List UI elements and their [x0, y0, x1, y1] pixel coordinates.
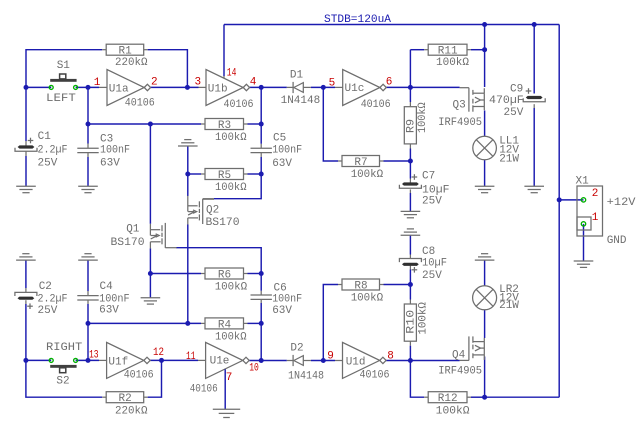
- svg-text:100kΩ: 100kΩ: [215, 281, 248, 293]
- svg-text:5: 5: [329, 77, 336, 89]
- svg-text:100kΩ: 100kΩ: [215, 132, 247, 144]
- node S2 left: [23, 358, 28, 363]
- svg-text:40106: 40106: [361, 99, 391, 111]
- ground U1e pin7: [213, 408, 240, 410]
- svg-text:R3: R3: [218, 120, 231, 132]
- wire LL1 to ground: [484, 160, 486, 186]
- svg-text:220kΩ: 220kΩ: [115, 405, 148, 417]
- wire U1f out to U1e in: [150, 359, 198, 361]
- wire U1d out to Q4 gate node 8: [386, 360, 460, 362]
- wire X1 pin2 feed: [559, 199, 583, 201]
- wire S2 to U1f input: [76, 359, 99, 361]
- svg-text:Q3: Q3: [453, 100, 466, 112]
- svg-text:470µF: 470µF: [489, 95, 524, 107]
- wire U1b out down to R3/C5: [260, 87, 262, 124]
- svg-text:1N4148: 1N4148: [288, 371, 324, 383]
- wire R10 bottom to U1d out: [409, 341, 411, 346]
- wire +12V top rail STDB net: [224, 24, 559, 26]
- resistor R2: [106, 392, 144, 403]
- wire R12 right to Q4/rail node: [467, 396, 471, 398]
- svg-text:10µF: 10µF: [422, 257, 447, 269]
- capacitor C3: [77, 147, 98, 149]
- svg-text:S2: S2: [56, 375, 69, 387]
- wire ground to R5 node: [187, 146, 189, 174]
- capacitor C6: [251, 294, 272, 296]
- svg-text:6: 6: [386, 77, 393, 89]
- wire node9 up to R8: [323, 285, 338, 361]
- wire rail to Q3 column: [484, 25, 486, 50]
- node R6 left: [148, 271, 153, 276]
- op-amp U1f: [107, 342, 144, 378]
- svg-text:40106: 40106: [360, 369, 390, 381]
- resistor R4: [205, 318, 244, 329]
- svg-text:100kΩ: 100kΩ: [215, 331, 247, 343]
- node R8/C8/R10: [408, 282, 413, 287]
- svg-text:Q2: Q2: [206, 205, 219, 217]
- wire U1d out down to R12: [410, 361, 424, 398]
- wire X1 pin1 to ground: [583, 224, 585, 261]
- svg-text:U1d: U1d: [346, 357, 366, 369]
- wire R6 node to ground: [149, 274, 151, 298]
- node 5: [321, 85, 326, 90]
- svg-text:100kΩ: 100kΩ: [215, 182, 247, 194]
- wire R2 left loop: [26, 360, 102, 397]
- svg-text:63V: 63V: [100, 157, 120, 169]
- svg-text:100kΩ: 100kΩ: [418, 302, 430, 335]
- wire R4 row: [88, 322, 201, 324]
- switch S1: [50, 79, 76, 82]
- wire C8 to R8 node: [409, 266, 411, 270]
- svg-text:1: 1: [94, 77, 101, 89]
- wire R6 left: [150, 273, 201, 275]
- node Q2 source/R4: [185, 321, 190, 326]
- wire R1 right to node 3: [144, 49, 148, 51]
- svg-text:R5: R5: [218, 170, 231, 182]
- svg-text:RIGHT: RIGHT: [46, 342, 83, 354]
- svg-text:7: 7: [226, 372, 233, 384]
- svg-text:63V: 63V: [99, 304, 119, 316]
- resistor R6: [205, 268, 244, 279]
- svg-text:14: 14: [227, 68, 237, 80]
- node Q1 gate: [148, 122, 153, 127]
- op-amp U1d: [343, 342, 380, 378]
- svg-text:2.2µF: 2.2µF: [38, 294, 68, 306]
- ground C9: [524, 185, 544, 187]
- resistor R1: [106, 44, 144, 55]
- resistor R9: [404, 107, 416, 144]
- switch S2: [50, 365, 76, 368]
- wire rail to C9: [533, 25, 535, 94]
- svg-text:100kΩ: 100kΩ: [351, 293, 384, 305]
- svg-text:2: 2: [592, 188, 599, 200]
- node 6: [408, 85, 413, 90]
- svg-text:10µF: 10µF: [422, 184, 450, 196]
- svg-text:+12V: +12V: [607, 197, 636, 209]
- node U1f input: [86, 358, 91, 363]
- svg-text:2.2µF: 2.2µF: [38, 144, 68, 156]
- wire R8 right: [380, 284, 384, 286]
- svg-text:10: 10: [249, 363, 259, 375]
- capacitor C9: [526, 96, 543, 99]
- ground C7: [401, 210, 421, 212]
- svg-text:R8: R8: [354, 280, 367, 292]
- op-amp U1a: [107, 70, 144, 106]
- svg-text:63V: 63V: [272, 158, 292, 170]
- wire C6 leads: [260, 274, 262, 291]
- wire Q1 lower lead to C6 column: [176, 248, 261, 274]
- svg-text:25V: 25V: [422, 196, 442, 208]
- wire C3 to ground: [87, 153, 89, 157]
- svg-text:9: 9: [327, 351, 334, 363]
- node rail Q3: [482, 22, 487, 27]
- svg-text:100nF: 100nF: [272, 294, 302, 306]
- wire S1 to U1a input: [76, 86, 99, 88]
- wire C3 branch: [87, 87, 89, 143]
- node R6 right: [259, 271, 264, 276]
- wire C9 to ground: [533, 104, 535, 108]
- wire R9 top from node 6: [409, 87, 411, 102]
- wire C8 ground stem: [409, 235, 411, 254]
- svg-text:Q4: Q4: [452, 349, 466, 361]
- svg-text:R12: R12: [438, 393, 458, 405]
- svg-text:13: 13: [89, 350, 99, 362]
- wire D2 to U1d node 9: [311, 360, 335, 362]
- ground C3: [78, 185, 98, 187]
- ground above LR2: [475, 259, 495, 261]
- node 10: [259, 358, 264, 363]
- wire U1a out to U1b in: [151, 86, 199, 88]
- svg-text:C2: C2: [39, 281, 52, 293]
- svg-text:R9: R9: [406, 119, 418, 133]
- transistor Q1: [149, 224, 151, 236]
- svg-text:25V: 25V: [38, 157, 58, 169]
- svg-text:63V: 63V: [272, 305, 292, 317]
- capacitor C5: [251, 147, 272, 149]
- wire R6 right: [244, 273, 248, 275]
- svg-text:40106: 40106: [190, 384, 218, 396]
- svg-text:220kΩ: 220kΩ: [115, 57, 148, 69]
- wire Q3 source to rail: [484, 50, 486, 87]
- svg-text:11: 11: [186, 351, 196, 363]
- svg-text:100kΩ: 100kΩ: [351, 169, 384, 181]
- svg-text:100kΩ: 100kΩ: [436, 405, 470, 417]
- wire R7 right: [380, 160, 384, 162]
- svg-text:25V: 25V: [504, 107, 524, 119]
- wire Q2 drain jog: [214, 174, 261, 199]
- wire R5 left to ground node: [188, 173, 201, 175]
- node R5 right: [259, 172, 264, 177]
- capacitor C4: [77, 295, 98, 297]
- svg-text:40106: 40106: [125, 97, 155, 109]
- wire C6 column to U1e out: [260, 323, 262, 360]
- node U1a input: [86, 85, 91, 90]
- node R4 right: [259, 321, 264, 326]
- svg-text:C7: C7: [422, 171, 435, 183]
- wire R2 right to U1f out: [144, 396, 148, 398]
- ground LL1: [475, 185, 495, 187]
- wire C1 to ground: [25, 151, 27, 156]
- wire C4 ground stem: [87, 260, 89, 291]
- svg-text:R6: R6: [218, 269, 231, 281]
- svg-text:40106: 40106: [224, 99, 254, 111]
- svg-text:C4: C4: [100, 281, 114, 293]
- op-amp U1e: [206, 342, 243, 378]
- svg-text:LEFT: LEFT: [46, 93, 76, 105]
- ground above C2: [16, 259, 36, 261]
- resistor R8: [342, 279, 380, 290]
- wire R9 bottom: [409, 144, 411, 149]
- capacitor C7: [402, 182, 419, 185]
- svg-text:C1: C1: [38, 131, 52, 143]
- wire R4 right: [244, 322, 248, 324]
- svg-text:21W: 21W: [499, 300, 519, 312]
- svg-text:100kΩ: 100kΩ: [436, 57, 469, 69]
- svg-text:S1: S1: [57, 60, 71, 72]
- svg-text:C5: C5: [273, 133, 286, 145]
- node S1 left: [24, 85, 29, 90]
- transistor Q3: [460, 87, 469, 89]
- svg-text:C9: C9: [510, 84, 523, 96]
- wire C5 leads: [260, 124, 262, 144]
- node 4: [259, 85, 264, 90]
- svg-text:40106: 40106: [124, 369, 154, 381]
- wire S1 row left: [26, 86, 51, 88]
- resistor R7: [342, 156, 380, 167]
- svg-text:25V: 25V: [422, 270, 442, 282]
- wire node5 down to R7: [323, 87, 338, 161]
- svg-text:IRF4905: IRF4905: [438, 117, 482, 129]
- node C3/R3: [86, 122, 91, 127]
- diode D1: [292, 82, 294, 93]
- svg-text:12: 12: [153, 347, 164, 359]
- ground above C8: [401, 234, 421, 236]
- resistor R10: [404, 304, 416, 341]
- ground X1: [574, 260, 594, 262]
- svg-text:25V: 25V: [38, 305, 58, 317]
- svg-text:R7: R7: [354, 157, 367, 169]
- wire U1e out to D2: [249, 360, 287, 362]
- wire Q1 source to R6 node: [149, 248, 151, 273]
- op-amp U1b: [206, 70, 243, 106]
- connector X1: [577, 186, 603, 236]
- wire U1e pin7 to ground: [224, 369, 226, 409]
- node R5 left: [185, 172, 190, 177]
- svg-text:U1a: U1a: [109, 83, 129, 95]
- ground below R6: [141, 297, 161, 299]
- wire C7 to ground: [409, 189, 411, 193]
- svg-text:2: 2: [151, 76, 158, 88]
- wire Q4 drain to bottom rail: [484, 357, 486, 398]
- resistor R5: [205, 169, 244, 180]
- wire Q3 drain to LL1: [484, 111, 486, 137]
- node 8: [408, 358, 413, 363]
- wire R11 left from node 6: [409, 50, 411, 88]
- svg-text:X1: X1: [576, 176, 590, 188]
- wire C2 to S2 node: [25, 300, 27, 304]
- wire U1c out to Q3 gate node 6: [386, 86, 459, 88]
- node X1 feed: [557, 197, 562, 202]
- wire Q2 source down to R4 row: [187, 225, 189, 324]
- transistor Q2: [187, 196, 189, 212]
- svg-text:4: 4: [250, 77, 257, 89]
- node 12: [159, 358, 164, 363]
- wire node to Q2 gate: [187, 174, 189, 196]
- lamp LL1: [473, 136, 497, 160]
- svg-text:U1f: U1f: [108, 356, 128, 368]
- resistor R3: [205, 119, 244, 130]
- svg-text:R11: R11: [438, 46, 458, 58]
- capacitor C8: [399, 259, 421, 263]
- wire C4 down to S2 right node: [87, 300, 89, 304]
- wire R10 top: [409, 285, 411, 300]
- node R4 left: [86, 321, 91, 326]
- node R11 right: [482, 47, 487, 52]
- svg-text:C8: C8: [422, 246, 435, 258]
- node rail C9: [532, 22, 537, 27]
- svg-text:IRF4905: IRF4905: [438, 366, 482, 378]
- svg-text:100nF: 100nF: [272, 144, 302, 156]
- svg-text:100nF: 100nF: [100, 144, 130, 156]
- svg-text:R10: R10: [406, 310, 418, 334]
- svg-text:BS170: BS170: [206, 217, 240, 229]
- ground C1: [16, 185, 36, 187]
- wire R5 right: [244, 173, 248, 175]
- svg-text:1N4148: 1N4148: [281, 95, 321, 107]
- wire C7 leads: [409, 161, 411, 179]
- svg-text:R4: R4: [218, 319, 232, 331]
- svg-text:Q1: Q1: [126, 224, 140, 236]
- ground above C4: [78, 259, 98, 261]
- wire D1 to U1c node 5: [311, 86, 335, 88]
- wire LR2 ground stem: [484, 260, 486, 286]
- svg-text:STDB=120uA: STDB=120uA: [324, 14, 391, 26]
- lamp LR2: [473, 286, 497, 310]
- wire C1 branch: [25, 87, 27, 141]
- svg-text:100kΩ: 100kΩ: [417, 102, 429, 133]
- svg-text:3: 3: [195, 76, 202, 88]
- transistor Q4: [460, 359, 469, 361]
- diode D2: [292, 355, 294, 366]
- node R3 right: [259, 122, 264, 127]
- wire right +12V rail down: [558, 25, 560, 398]
- capacitor C2: [15, 292, 37, 296]
- wire S2 row left: [26, 359, 51, 361]
- svg-text:R2: R2: [119, 393, 132, 405]
- wire R1 left loop: [26, 50, 102, 88]
- svg-text:D2: D2: [290, 343, 303, 355]
- wire R11 right: [467, 49, 471, 51]
- svg-text:GND: GND: [607, 235, 627, 247]
- svg-text:21W: 21W: [499, 153, 519, 165]
- svg-text:1: 1: [592, 212, 599, 224]
- capacitor C1: [18, 145, 35, 148]
- svg-text:U1e: U1e: [210, 356, 230, 368]
- node 9: [321, 358, 326, 363]
- svg-text:U1c: U1c: [345, 83, 365, 95]
- ground above R5: [178, 145, 198, 147]
- wire U1b out to D1: [250, 86, 287, 88]
- svg-text:D1: D1: [290, 69, 304, 81]
- svg-text:8: 8: [387, 351, 394, 363]
- wire node row R3: [88, 123, 201, 125]
- svg-text:R1: R1: [119, 46, 133, 58]
- wire bottom rail: [485, 396, 560, 398]
- wire LR2 to Q4 source: [484, 310, 486, 338]
- node R7/R9/C7: [408, 159, 413, 164]
- op-amp U1c: [343, 70, 380, 106]
- node R12 right: [482, 395, 487, 400]
- wire R3 right to C5 column: [244, 123, 248, 125]
- svg-text:U1b: U1b: [208, 83, 228, 95]
- svg-text:BS170: BS170: [111, 237, 145, 249]
- resistor R12: [428, 392, 467, 403]
- node 3: [185, 85, 190, 90]
- wire C2 ground stem: [25, 260, 27, 288]
- resistor R11: [428, 44, 467, 55]
- wire U1b pin14 to rail: [223, 25, 225, 77]
- wire Q1 gate from R3 row: [149, 124, 151, 224]
